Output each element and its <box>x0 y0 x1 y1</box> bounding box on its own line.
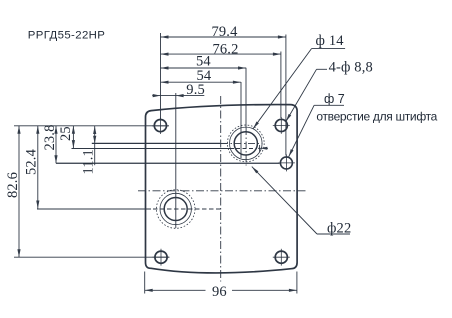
svg-text:9.5: 9.5 <box>186 82 205 98</box>
extension line E (bore flat, x=241.5) <box>240 82 242 158</box>
leader ф22 <box>251 166 352 237</box>
feature line y=143.4 <box>92 142 220 144</box>
hole top-right (8.8) <box>273 117 290 134</box>
feature line y=163.3 (pin hole row) <box>56 162 280 164</box>
leader 4-ф 8,8 <box>285 59 373 122</box>
svg-text:ф 7: ф 7 <box>324 92 345 106</box>
left extension line y=257.2 (bottom holes row) <box>14 256 169 258</box>
svg-text:96: 96 <box>212 284 227 300</box>
svg-text:ф 14: ф 14 <box>316 33 345 49</box>
bore hidden line y=148.5 <box>236 145 270 152</box>
big bore dotted circle (22) <box>227 125 264 162</box>
big bore horizontal centerline <box>221 142 263 144</box>
hole top-left (8.8) <box>152 118 169 135</box>
feature line y=148.5 <box>72 148 235 150</box>
dimension 23.8 <box>42 125 58 164</box>
dimension 76.2 <box>161 41 281 57</box>
dimension 79.4 <box>161 24 286 40</box>
big bore thin circle <box>230 127 263 160</box>
dimension 9.5 <box>152 82 205 98</box>
dimension 96 <box>145 272 297 300</box>
extension line A (left holes column, x=160.6) <box>160 33 162 120</box>
dimension 25 <box>58 126 75 148</box>
lower boss horizontal centerline <box>153 208 222 210</box>
svg-text:52.4: 52.4 <box>23 148 39 175</box>
leader ф 14 <box>252 33 345 129</box>
extension line B (pin hole column, x=285.9) <box>285 35 287 156</box>
dimension 54 lower <box>161 68 241 84</box>
svg-text:4-ф 8,8: 4-ф 8,8 <box>329 59 373 75</box>
dimension 11.1 <box>80 126 96 175</box>
svg-text:ф22: ф22 <box>327 221 351 237</box>
big bore vertical centerline <box>245 128 247 166</box>
svg-text:отверстие для штифта: отверстие для штифта <box>316 109 437 123</box>
svg-text:23.8: 23.8 <box>42 125 58 151</box>
pin hole (7) <box>278 154 295 171</box>
svg-text:РРГД55-22НР: РРГД55-22НР <box>28 30 105 42</box>
big bore (14) bold circle <box>234 132 257 155</box>
dimension 52.4 <box>23 126 39 209</box>
lower boss bold circle <box>164 198 187 221</box>
extension line F (lower boss centerline, x=175.9) <box>175 93 177 228</box>
dimension 82.6 <box>5 126 21 257</box>
lower boss dotted circle <box>156 190 195 229</box>
lower boss thin circle <box>160 193 191 224</box>
svg-text:82.6: 82.6 <box>5 172 21 198</box>
boss extension y=209 <box>37 208 151 210</box>
svg-text:76.2: 76.2 <box>213 41 239 57</box>
hole bottom-right (8.8) <box>273 249 290 266</box>
dimension 54 upper <box>161 53 247 69</box>
svg-text:11.1: 11.1 <box>80 149 96 174</box>
vertical centerline of plate <box>220 96 222 282</box>
hole bottom-left (8.8) <box>153 249 170 266</box>
left extension line y=125.8 (top holes row) <box>14 125 169 127</box>
extension line D (big bore centerline, x=246.1) <box>245 68 247 128</box>
extension line C (top-right hole column, x=280.9) <box>280 52 282 119</box>
svg-text:79.4: 79.4 <box>212 24 239 40</box>
horizontal centerline of plate <box>138 190 306 192</box>
svg-text:25: 25 <box>58 126 74 141</box>
plate outline <box>146 105 298 273</box>
feature dash-dot continuation y=143.4 <box>220 142 227 144</box>
leader ф 7 <box>287 92 345 158</box>
